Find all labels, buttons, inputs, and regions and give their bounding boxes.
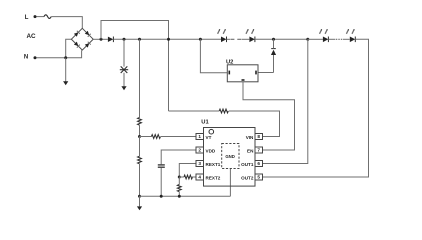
pin 1 box bbox=[196, 134, 204, 140]
node U2 tap bbox=[199, 38, 202, 41]
capacitor C2 bbox=[158, 165, 165, 167]
diode D1 bbox=[108, 37, 114, 43]
wire N to bridge bottom bbox=[36, 50, 81, 58]
wire Re to pin4 bbox=[179, 176, 196, 178]
svg-text:OUT2: OUT2 bbox=[241, 175, 254, 180]
wire dashed LED string2 bbox=[328, 38, 335, 40]
LED4 arrows bbox=[346, 29, 354, 34]
LED2 arrows bbox=[246, 29, 254, 34]
wire dashed LED string1 bbox=[227, 38, 231, 40]
svg-text:7: 7 bbox=[257, 148, 260, 153]
wire OUT1 bbox=[263, 39, 308, 163]
node OUT1 tap bbox=[306, 38, 309, 41]
node REXT bbox=[178, 176, 181, 179]
wire Ra to node bbox=[139, 125, 141, 136]
pin 5 box bbox=[255, 174, 263, 180]
svg-text:8: 8 bbox=[257, 134, 260, 139]
wire R-chain upper bbox=[139, 39, 141, 117]
wire fuse to bridge top bbox=[51, 17, 82, 29]
wire bridge right vertex to diode bbox=[93, 38, 108, 40]
node N-junction bbox=[64, 56, 67, 59]
node rect output bbox=[100, 38, 103, 41]
svg-text:4: 4 bbox=[198, 175, 201, 180]
wire bridge left vertex to ground node bbox=[66, 39, 72, 58]
svg-text:L: L bbox=[25, 15, 29, 21]
wire LED string2 start bbox=[308, 38, 323, 40]
svg-text:AC: AC bbox=[27, 33, 37, 40]
resistor Rb bbox=[151, 135, 160, 139]
top bypass wire bbox=[101, 21, 169, 112]
node VT divider bbox=[138, 135, 141, 138]
svg-text:EN: EN bbox=[247, 148, 254, 153]
wire C1 drop bbox=[123, 39, 125, 66]
wire Rb to pin1 bbox=[161, 136, 196, 138]
wire to ground arrow bbox=[139, 196, 141, 206]
svg-text:VIN: VIN bbox=[246, 135, 254, 140]
bridge rectifier BR1 bbox=[71, 28, 93, 50]
LED4 bbox=[350, 37, 356, 43]
wire L to fuse bbox=[36, 16, 44, 18]
svg-text:N: N bbox=[24, 55, 28, 61]
pin 3 box bbox=[196, 161, 204, 167]
terminal L bbox=[34, 15, 37, 18]
wire C2 to ground line bbox=[160, 168, 162, 197]
ground bus wire bbox=[140, 195, 231, 197]
svg-text:VT: VT bbox=[206, 135, 212, 140]
wire junction to ground bbox=[65, 58, 67, 82]
svg-text:3: 3 bbox=[198, 161, 201, 166]
ground bbox=[121, 86, 126, 90]
U1 pin1 indicator bbox=[209, 129, 214, 134]
pin 7 box bbox=[255, 147, 263, 153]
svg-text:VDD: VDD bbox=[206, 148, 216, 153]
U1 body bbox=[204, 128, 256, 187]
pin 6 box bbox=[255, 161, 263, 167]
wire node to Rc bbox=[139, 137, 141, 157]
wire pin2 VDD to cap bbox=[161, 150, 196, 164]
terminal N bbox=[34, 56, 37, 59]
pin 4 box bbox=[196, 174, 204, 180]
node C1 tap bbox=[123, 38, 126, 41]
wire Rc to ground line bbox=[139, 164, 141, 197]
LED3 arrows bbox=[320, 29, 328, 34]
wire main bus bbox=[113, 38, 221, 40]
svg-text:GND: GND bbox=[225, 154, 235, 159]
wire C1 to ground bbox=[123, 73, 125, 87]
pin 8 box bbox=[255, 134, 263, 140]
node bypass crossing bbox=[167, 38, 170, 41]
node ground-C2 bbox=[160, 195, 163, 198]
svg-text:5: 5 bbox=[257, 175, 260, 180]
wire D2 to U2 pin2 bbox=[258, 72, 274, 74]
wire U2 input drop bbox=[200, 39, 227, 73]
resistor Rf bbox=[177, 185, 181, 192]
ground bbox=[63, 81, 68, 85]
svg-text:OUT1: OUT1 bbox=[241, 162, 254, 167]
svg-text:2: 2 bbox=[198, 148, 201, 153]
resistor Re bbox=[184, 175, 193, 179]
fuse F1 bbox=[44, 15, 51, 19]
resistor Rd bbox=[219, 109, 228, 113]
capacitor C1 bbox=[120, 66, 128, 73]
node D2 bbox=[272, 38, 275, 41]
LED3 bbox=[323, 37, 329, 43]
wire Rf to ground line bbox=[178, 192, 180, 197]
node R-chain tap bbox=[138, 38, 141, 41]
wire pin3 REXT1 bbox=[179, 164, 196, 178]
ground bbox=[137, 206, 142, 210]
node ground-Rf bbox=[178, 195, 181, 198]
svg-text:1: 1 bbox=[198, 134, 201, 139]
svg-text:6: 6 bbox=[257, 161, 260, 166]
wire OUT2 return bbox=[263, 39, 369, 177]
wire VIN feed with resistor bbox=[169, 110, 220, 112]
resistor Rc bbox=[138, 156, 142, 164]
svg-text:REXT1: REXT1 bbox=[206, 162, 221, 167]
diode D2 bbox=[271, 39, 276, 72]
wire node to Rb bbox=[140, 136, 152, 138]
LED1 bbox=[221, 37, 227, 43]
wire U2 bottom to EN bbox=[243, 82, 295, 150]
pin 2 box bbox=[196, 147, 204, 153]
U2 block bbox=[227, 65, 258, 82]
LED2 bbox=[249, 37, 255, 43]
svg-text:U1: U1 bbox=[201, 120, 209, 126]
node ground-left bbox=[138, 195, 141, 198]
wire node to Rf bbox=[178, 177, 180, 185]
svg-text:REXT2: REXT2 bbox=[206, 175, 221, 180]
U1 GND pad dashed box bbox=[222, 144, 239, 169]
wire Rd to VIN pin8 bbox=[229, 111, 280, 137]
LED1 arrows bbox=[218, 29, 226, 34]
wire LED2 to D2 node bbox=[255, 38, 308, 40]
svg-text:U2: U2 bbox=[226, 59, 233, 65]
resistor Ra bbox=[138, 118, 142, 126]
U1 GND drop bbox=[229, 169, 231, 197]
